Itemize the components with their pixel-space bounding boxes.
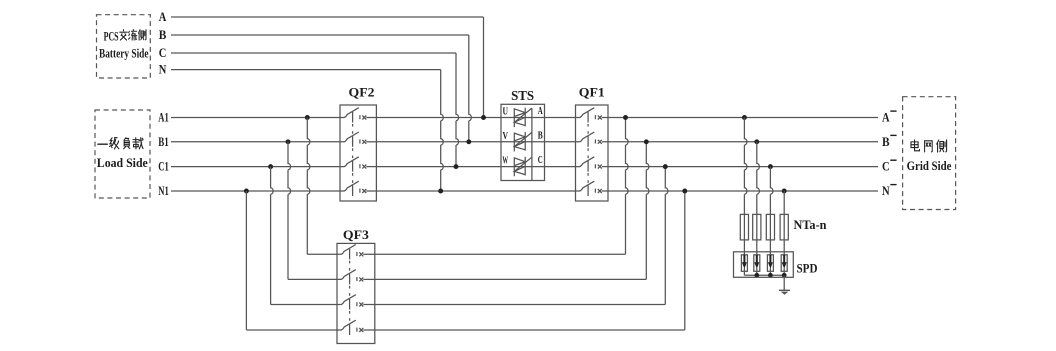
svg-text:C: C	[159, 46, 167, 60]
svg-text:C: C	[538, 154, 543, 166]
svg-text:B: B	[538, 129, 543, 141]
svg-text:A: A	[538, 105, 543, 117]
svg-text:SPD: SPD	[797, 261, 818, 276]
svg-text:W: W	[503, 155, 509, 167]
svg-text:Grid Side: Grid Side	[907, 159, 952, 173]
svg-text:N: N	[882, 184, 890, 198]
svg-text:A1: A1	[158, 111, 169, 125]
svg-text:QF3: QF3	[343, 227, 370, 242]
svg-text:Load Side: Load Side	[97, 156, 148, 170]
svg-text:PCS: PCS	[104, 28, 119, 43]
svg-text:A: A	[159, 10, 167, 24]
svg-text:STS: STS	[511, 88, 534, 103]
svg-text:V: V	[503, 130, 509, 142]
svg-text:QF1: QF1	[579, 85, 605, 100]
svg-text:N1: N1	[158, 184, 169, 198]
svg-text:B1: B1	[158, 135, 169, 149]
svg-text:C: C	[882, 160, 890, 174]
svg-text:Battery Side: Battery Side	[99, 47, 149, 61]
svg-text:C1: C1	[158, 160, 169, 174]
svg-text:B: B	[882, 135, 890, 149]
svg-text:QF2: QF2	[349, 85, 375, 100]
svg-text:B: B	[159, 28, 167, 42]
svg-text:NTa-n: NTa-n	[794, 217, 828, 232]
svg-text:A: A	[882, 111, 890, 125]
svg-text:U: U	[503, 106, 509, 118]
svg-text:N: N	[159, 63, 167, 77]
